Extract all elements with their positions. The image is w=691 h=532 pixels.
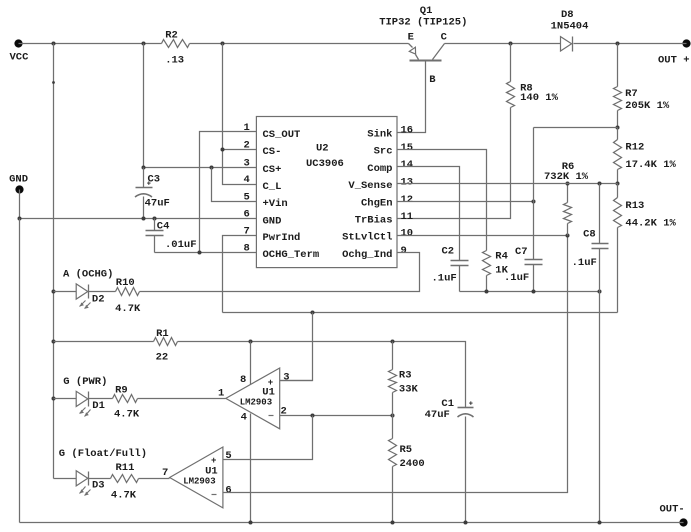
node OUT- terminal: [660, 504, 688, 527]
wire sense line to R13 bottom: [223, 312, 618, 314]
node junction D1 branch: [52, 397, 56, 401]
svg-text:4.7K: 4.7K: [111, 489, 137, 501]
svg-text:CS-: CS-: [263, 146, 282, 158]
wire D2 to R10: [89, 291, 116, 293]
wire VCC rail down left side: [53, 44, 55, 479]
wire Q1 collector to D8: [445, 43, 561, 45]
svg-text:R3: R3: [399, 370, 412, 382]
node junction +Vin branch: [210, 166, 214, 170]
node junction C1 bottom on rail: [464, 521, 468, 525]
wire pin12 ChgEn line: [398, 201, 534, 203]
node junction pin2 to U1b pin5 branch: [311, 414, 315, 418]
svg-text:1: 1: [218, 388, 224, 400]
svg-text:4: 4: [241, 412, 247, 424]
svg-text:15: 15: [401, 142, 414, 154]
node junction U1a pin4 on rail: [249, 521, 253, 525]
node OUT+ terminal: [658, 39, 691, 66]
svg-text:D8: D8: [561, 9, 574, 21]
resistor R6 732K 1%: [544, 161, 589, 236]
node junction pin1 net on OCHG_Term: [198, 251, 202, 255]
svg-text:V_Sense: V_Sense: [348, 180, 392, 192]
node junction R5 bottom on rail: [391, 521, 395, 525]
wire sense branch down to U1 pin3: [280, 313, 313, 381]
capacitor C3 47uF: [135, 168, 170, 219]
svg-text:.01uF: .01uF: [165, 239, 197, 251]
wire bottom rail to OUT-: [20, 522, 684, 524]
wire pin13 V_Sense line: [398, 183, 618, 185]
svg-text:CS+: CS+: [263, 164, 282, 176]
wire VCC rail to D2: [54, 291, 77, 293]
wire top rail VCC to R2: [19, 43, 162, 45]
node junction R3-R5 divider tap: [391, 414, 395, 418]
svg-text:C: C: [441, 32, 448, 44]
capacitor C2 .1uF: [432, 245, 469, 291]
svg-text:+: +: [268, 378, 273, 388]
LED D2: [63, 268, 113, 309]
svg-text:14: 14: [401, 159, 414, 171]
op-amp U1 lower comparator LM2903: [162, 447, 232, 508]
LED D3: [59, 448, 147, 495]
wire D1 to R9: [89, 398, 113, 400]
svg-text:LM2903: LM2903: [240, 398, 272, 408]
node junction R1 branch: [52, 340, 56, 344]
svg-text:+: +: [211, 456, 216, 466]
svg-text:D1: D1: [92, 400, 105, 412]
node junction D2 branch: [52, 290, 56, 294]
transistor Q1 TIP32: [379, 5, 467, 86]
svg-text:TrBias: TrBias: [355, 215, 393, 227]
svg-text:17.4K 1%: 17.4K 1%: [625, 159, 676, 171]
node junction R8 top: [509, 42, 513, 46]
wire branch down to U1b pin5: [223, 416, 313, 460]
wire D8 to OUT+: [574, 43, 687, 45]
svg-text:GND: GND: [263, 216, 282, 228]
svg-text:D3: D3: [92, 480, 105, 492]
svg-text:StLvlCtl: StLvlCtl: [342, 231, 392, 243]
svg-text:205K 1%: 205K 1%: [625, 100, 670, 112]
node junction C7 bottom: [532, 290, 536, 294]
svg-text:7: 7: [162, 467, 168, 479]
node junction R6 bottom: [566, 234, 570, 238]
svg-text:D2: D2: [92, 293, 105, 305]
svg-text:6: 6: [225, 484, 231, 496]
wire R2 left down to CS+ line: [143, 44, 145, 168]
svg-text:Ochg_Ind: Ochg_Ind: [342, 249, 392, 261]
wire VCC rail corner to D3: [54, 478, 77, 480]
wire U1b pin6 - input to R6 net: [223, 236, 568, 493]
wire Q1 base to pin16 Sink: [398, 62, 426, 133]
node junction R3 top: [391, 340, 395, 344]
svg-text:OCHG_Term: OCHG_Term: [263, 249, 320, 261]
wire R2 right down to pin4 C_L: [223, 44, 257, 185]
node junction ChgEn on C7 branch: [532, 200, 536, 204]
svg-text:47uF: 47uF: [145, 198, 170, 210]
LED D1: [63, 376, 107, 417]
svg-text:4.7K: 4.7K: [114, 409, 140, 421]
svg-text:10: 10: [401, 228, 414, 240]
capacitor C1 47uF: [425, 398, 474, 523]
svg-text:R7: R7: [625, 88, 638, 100]
svg-text:B: B: [429, 74, 436, 86]
svg-text:Src: Src: [374, 146, 393, 158]
wire +Vin branch to pin5: [212, 168, 257, 202]
resistor R11 4.7K: [111, 462, 139, 501]
svg-text:E: E: [408, 32, 414, 44]
svg-text:4.7K: 4.7K: [115, 303, 141, 315]
wire pin9 Ochg_Ind down and left to R10: [140, 253, 420, 292]
svg-text:TIP32 (TIP125): TIP32 (TIP125): [379, 17, 467, 29]
wire GND terminal down: [19, 190, 21, 219]
svg-text:VCC: VCC: [10, 51, 30, 63]
svg-text:Sink: Sink: [367, 128, 392, 140]
svg-text:47uF: 47uF: [425, 409, 450, 421]
svg-text:12: 12: [401, 194, 414, 206]
svg-text:+Vin: +Vin: [263, 198, 288, 210]
svg-text:R1: R1: [156, 328, 169, 340]
svg-text:R4: R4: [495, 251, 508, 263]
svg-text:1: 1: [243, 122, 249, 134]
svg-text:+: +: [469, 400, 473, 408]
svg-text:C4: C4: [157, 221, 170, 233]
resistor R4 1K: [483, 251, 509, 292]
node junction R2 right: [221, 42, 225, 46]
svg-text:A (OCHG): A (OCHG): [63, 268, 113, 280]
svg-text:U1: U1: [262, 386, 275, 398]
wire U1a V+ pin8 supply: [250, 342, 252, 385]
wire U1a V- pin4 to bottom rail: [250, 414, 252, 523]
svg-text:U2: U2: [316, 143, 329, 155]
node junction R7-R12: [616, 126, 620, 130]
node junction R7 top: [616, 42, 620, 46]
svg-text:UC3906: UC3906: [306, 158, 344, 170]
wire VCC rail to D1: [54, 398, 77, 400]
wire R1 to C1 corner: [178, 342, 466, 408]
svg-text:732K 1%: 732K 1%: [544, 171, 589, 183]
svg-text:C7: C7: [515, 246, 528, 258]
wire pin7 PwrInd down to sense line: [223, 236, 257, 313]
svg-text:R9: R9: [115, 384, 128, 396]
op-amp U2 UC3906 IC body: [243, 117, 413, 268]
svg-text:G (Float/Full): G (Float/Full): [59, 448, 147, 460]
svg-text:Comp: Comp: [367, 163, 392, 175]
svg-text:G (PWR): G (PWR): [63, 376, 107, 388]
node junction comparator supply: [249, 340, 253, 344]
svg-text:R11: R11: [116, 462, 135, 474]
wire pin10 StLvlCtl to R6 bottom: [398, 235, 568, 237]
wire R13 bottom to sense line: [617, 228, 619, 313]
wire D3 to R11: [89, 478, 111, 480]
wire pin14 Comp to C2: [398, 167, 460, 261]
wire left rail GND to bottom: [19, 219, 21, 523]
node junction VCC rail top: [52, 42, 56, 46]
resistor R12 17.4K 1%: [614, 128, 677, 184]
node junction C3 top: [142, 166, 146, 170]
wire pin3 CS+ line: [144, 167, 257, 169]
svg-text:1N5404: 1N5404: [551, 20, 589, 32]
resistor R10 4.7K: [115, 277, 141, 315]
node junction C8 bottom: [598, 290, 602, 294]
node junction CS- on R2-right net: [221, 148, 225, 152]
svg-text:.1uF: .1uF: [432, 273, 457, 285]
wire R2 to Q1 emitter: [190, 43, 409, 45]
node small mark on VCC rail: [52, 81, 55, 84]
svg-text:R5: R5: [400, 444, 413, 456]
capacitor C7 .1uF: [504, 246, 543, 292]
resistor R13 44.2K 1%: [614, 184, 677, 230]
wire pin1 CS_OUT down to OCHG_Term net: [200, 132, 257, 253]
resistor R5 2400: [389, 416, 425, 523]
svg-text:5: 5: [225, 450, 231, 462]
svg-text:.1uF: .1uF: [572, 257, 597, 269]
node junction C8 net on rail: [598, 521, 602, 525]
capacitor C4 .01uF: [146, 219, 197, 253]
wire pin2 CS- stub: [223, 149, 257, 151]
wire R11 to U1 pin7 output: [139, 478, 170, 480]
svg-text:R13: R13: [625, 200, 644, 212]
svg-text:16: 16: [401, 125, 414, 137]
node junction R12-R13 V_Sense: [616, 182, 620, 186]
capacitor C8 .1uF: [572, 184, 609, 523]
svg-text:R10: R10: [116, 277, 135, 289]
svg-text:3: 3: [283, 371, 289, 383]
svg-text:C3: C3: [148, 174, 161, 186]
resistor R7 205K 1%: [614, 44, 670, 128]
wire pin15 Src to R4: [398, 150, 487, 251]
node junction R6 top on V_Sense: [566, 182, 570, 186]
svg-text:PwrInd: PwrInd: [263, 232, 301, 244]
node junction R2 left: [142, 42, 146, 46]
resistor R8 140 1%: [507, 44, 559, 108]
op-amp U1 upper comparator LM2903: [218, 368, 290, 429]
wire U1a pin3 + input: [280, 380, 313, 382]
svg-text:.13: .13: [165, 55, 184, 67]
svg-text:CS_OUT: CS_OUT: [263, 129, 301, 141]
node junction C8 top: [598, 182, 602, 186]
wire VCC rail to R1: [54, 341, 154, 343]
node junction sense line to comparator: [311, 311, 315, 315]
svg-text:OUT-: OUT-: [660, 504, 685, 516]
svg-text:9: 9: [401, 245, 407, 257]
wire R7-R12 junction to C7 branch: [534, 127, 618, 129]
wire bottom bypass net: [460, 291, 600, 293]
diode D8 1N5404: [551, 9, 589, 52]
node GND terminal: [9, 174, 28, 194]
resistor R1 22: [154, 328, 178, 364]
svg-text:140 1%: 140 1%: [520, 92, 559, 104]
node junction R4 bottom: [485, 290, 489, 294]
svg-text:33K: 33K: [399, 384, 419, 396]
svg-text:U1: U1: [205, 465, 218, 477]
wire C4 bottom to pin8 OCHG_Term: [155, 252, 257, 254]
svg-text:C2: C2: [442, 245, 455, 257]
svg-text:22: 22: [156, 352, 169, 364]
resistor R2: [162, 29, 190, 66]
svg-text:8: 8: [240, 374, 246, 386]
svg-text:R12: R12: [625, 142, 644, 154]
wire R8 bottom to TrBias pin11: [398, 108, 511, 219]
wire C7 branch vertical: [533, 128, 535, 260]
svg-text:C8: C8: [583, 229, 596, 241]
svg-text:LM2903: LM2903: [183, 477, 215, 487]
svg-text:C_L: C_L: [263, 181, 282, 193]
svg-text:1K: 1K: [495, 265, 508, 277]
wire R9 to U1 pin1 output: [138, 398, 226, 400]
node junction GND left rail: [18, 217, 22, 221]
svg-text:2400: 2400: [400, 458, 425, 470]
node junction C4 top: [153, 217, 157, 221]
wire U1a pin2 - input line: [280, 415, 393, 417]
wire GND line to pin6: [20, 218, 257, 220]
resistor R3 33K: [389, 342, 419, 416]
svg-text:Q1: Q1: [420, 5, 433, 17]
svg-text:11: 11: [401, 211, 414, 223]
svg-text:44.2K 1%: 44.2K 1%: [625, 217, 676, 229]
svg-text:13: 13: [401, 176, 414, 188]
node junction C3 bottom: [142, 217, 146, 221]
svg-text:R2: R2: [165, 29, 178, 41]
svg-text:GND: GND: [9, 174, 28, 186]
resistor R9 4.7K: [113, 384, 140, 420]
svg-text:ChgEn: ChgEn: [361, 198, 393, 210]
node VCC terminal: [10, 39, 30, 63]
svg-text:OUT +: OUT +: [658, 55, 690, 67]
